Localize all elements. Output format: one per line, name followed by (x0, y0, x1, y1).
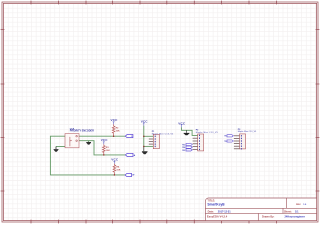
svg-text:Maple Mini C13_V5: Maple Mini C13_V5 (238, 131, 257, 133)
svg-text:10K: 10K (106, 150, 110, 152)
svg-text:PRIORITY ENCODER: PRIORITY ENCODER (70, 130, 94, 133)
svg-text:TITLE:: TITLE: (207, 199, 215, 202)
svg-text:24Hoursengineer: 24Hoursengineer (285, 216, 305, 219)
svg-text:1/1: 1/1 (295, 211, 299, 214)
svg-text:VCC: VCC (178, 122, 186, 126)
svg-text:Maple Mini C13_V5: Maple Mini C13_V5 (152, 133, 174, 135)
svg-text:Sheet:: Sheet: (284, 211, 292, 214)
svg-text:SmartKeyB: SmartKeyB (207, 203, 225, 207)
svg-text:10K: 10K (116, 169, 120, 171)
svg-text:Maple Mini C13_V5: Maple Mini C13_V5 (196, 132, 219, 134)
svg-text:REV:: REV: (296, 204, 301, 206)
svg-text:Date:: Date: (208, 211, 214, 214)
svg-text:10K: 10K (116, 130, 120, 132)
svg-text:Drawn By:: Drawn By: (262, 216, 275, 219)
svg-text:2017-12-31: 2017-12-31 (218, 211, 231, 214)
svg-text:EasyEDA V4.2.4: EasyEDA V4.2.4 (207, 215, 228, 219)
